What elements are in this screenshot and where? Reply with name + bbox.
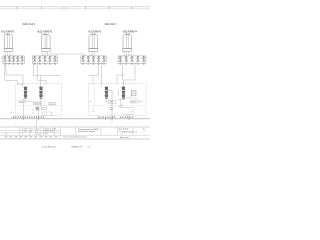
rail junction ticks — [24, 118, 129, 120]
contactor K2 pin marks — [38, 87, 43, 95]
pump M1 drop wires — [5, 51, 10, 56]
device 4b hatch — [131, 92, 136, 94]
svg-text:-X2: -X2 — [42, 54, 45, 56]
wire link under box 4b — [120, 97, 137, 99]
aux device box 2 — [41, 107, 46, 110]
terminal box X3 — [81, 56, 106, 63]
pump M3 drop wires — [90, 51, 95, 56]
terminal X3.4 — [97, 56, 100, 64]
svg-text:Gepr: Gepr — [30, 127, 34, 130]
frame column tick 3 — [63, 7, 65, 9]
wire relay K4 drop to rail — [118, 98, 129, 119]
pump M3 lead pair (neck) — [92, 33, 94, 34]
device tag box K3.1 — [108, 101, 116, 104]
svg-text:31: 31 — [131, 111, 133, 113]
frame column tick 4 — [85, 7, 87, 9]
terminal X3.1 — [82, 56, 85, 64]
enclosure 2 internal dashed divider — [89, 105, 147, 107]
enclosure 2 dashed sub-divider — [93, 84, 95, 106]
svg-text:-M102 PUMPE P2: -M102 PUMPE P2 — [37, 31, 53, 33]
float switch S4 — [120, 105, 122, 107]
float switch S3 on drop wire — [110, 107, 113, 110]
device tag box K2.1 — [49, 102, 56, 105]
wire link row 4 — [122, 108, 134, 115]
svg-text:-W101 4G2,5: -W101 4G2,5 — [22, 23, 35, 26]
svg-text:-X3: -X3 — [91, 54, 94, 56]
svg-text:#1: #1 — [88, 147, 91, 149]
contactor K4 — [122, 87, 125, 99]
contactor K2 — [40, 87, 43, 99]
svg-text:+S1: +S1 — [118, 131, 121, 133]
svg-text:A2: A2 — [141, 100, 143, 103]
contactor K4 pin marks — [121, 87, 126, 95]
wire box X2 to relay K2 (run A) — [34, 63, 62, 86]
wire drop into relay K4 — [117, 75, 125, 96]
terminal X1.5 — [21, 56, 24, 64]
terminal box X4 — [118, 56, 146, 63]
title block row line 1 — [0, 129, 61, 131]
svg-text:12: 12 — [32, 113, 34, 115]
frame column tick 6 — [131, 7, 133, 9]
svg-text:4,0 kW: 4,0 kW — [4, 33, 9, 35]
device tag box K1.1 — [19, 100, 25, 103]
svg-text:-K2.1: -K2.1 — [50, 103, 54, 105]
svg-text:Mu: Mu — [30, 131, 32, 133]
terminal X2.4 — [48, 56, 51, 64]
svg-text:12.05: 12.05 — [24, 131, 28, 133]
svg-text:13: 13 — [42, 114, 44, 116]
svg-text:4,0 kW: 4,0 kW — [91, 33, 96, 35]
terminal X2.2 — [38, 56, 41, 64]
svg-text:4,0 kW: 4,0 kW — [125, 33, 130, 35]
svg-text:Blatt 1 von 1: Blatt 1 von 1 — [120, 136, 129, 139]
title block outline — [0, 127, 150, 139]
terminal box X1 — [3, 56, 25, 63]
terminal box X2 — [33, 56, 58, 63]
pump M3 base — [89, 49, 98, 52]
pump M3 body — [89, 35, 97, 49]
wire stub below rail x36.6 — [36, 119, 38, 127]
contactor K1 — [24, 87, 27, 99]
pump M2 drop wires — [43, 51, 48, 56]
terminal X1.3 — [12, 56, 15, 64]
device tag box K4.1 — [131, 100, 140, 103]
pump M2 lead pair (neck) — [45, 33, 47, 34]
svg-text:21: 21 — [92, 108, 94, 110]
terminal X2.1 — [33, 56, 36, 64]
frame top inner line — [0, 8, 150, 10]
svg-text:-X1: -X1 — [11, 54, 14, 56]
device tag box mid group1 — [33, 102, 41, 105]
svg-text:-X4: -X4 — [129, 54, 132, 56]
terminal X1.4 — [16, 56, 19, 64]
svg-text:ST: ST — [36, 131, 38, 133]
wire box X3 to relay K3 (run A) — [89, 63, 99, 84]
contactor K3 pin marks — [104, 87, 109, 95]
svg-text:Bl.1: Bl.1 — [143, 129, 146, 131]
svg-text:Datum 12.05.2008 Name Bauer: Datum 12.05.2008 Name Bauer — [63, 135, 87, 138]
title block row line 3 (full) — [0, 134, 150, 136]
pump M2 body — [42, 35, 50, 49]
wire box X1 to relay K1 (run B) — [5, 63, 23, 84]
terminal X4.2 — [125, 56, 128, 64]
svg-text:-X10: -X10 — [10, 112, 13, 114]
svg-text:12.05.08 14:22: 12.05.08 14:22 — [42, 147, 57, 149]
svg-text:-M101 PUMPE P1: -M101 PUMPE P1 — [1, 31, 15, 33]
pump M1 base — [4, 49, 13, 52]
wire relay K3 to tag box — [106, 98, 108, 102]
title block bottom row ticks — [5, 135, 60, 139]
float switch S2 — [36, 107, 39, 110]
contactor K3 — [105, 87, 108, 99]
control cabinet enclosure group 1 (dashed) — [16, 84, 62, 116]
wire box X3 to relay K3 (run B) — [101, 63, 103, 86]
long wire to rail at x112 — [108, 90, 112, 119]
terminal X4.5 — [142, 56, 145, 64]
svg-text:v.1: v.1 — [143, 131, 145, 133]
pump M1 body — [4, 35, 12, 49]
link wire group1 to box X3 — [47, 54, 84, 56]
frame column tick 1 — [16, 7, 18, 9]
blob device 2 — [36, 107, 40, 111]
terminal X1.2 — [8, 56, 11, 64]
title block row line 2 — [0, 132, 61, 134]
wire relay K1 to terminal rail — [24, 98, 26, 119]
frame top outer line — [0, 6, 150, 8]
control cabinet enclosure group 2 (dashed) — [89, 84, 147, 116]
rail numbers right group — [98, 117, 133, 119]
pump M2 inner channel — [45, 35, 47, 49]
svg-text:A1: A1 — [90, 100, 92, 103]
pump M1 lead pair (neck) — [8, 33, 10, 34]
wire box X4 loop run — [122, 63, 135, 80]
terminal X3.5 — [102, 56, 105, 64]
terminal X3.3 — [92, 56, 95, 64]
contactor K1 pin marks — [23, 87, 28, 95]
terminal X4.1 — [119, 56, 122, 64]
terminal X1.1 — [4, 56, 7, 64]
pump M2 base — [42, 49, 51, 52]
frame column tick 5 — [108, 7, 110, 9]
pump M3 inner channel — [92, 35, 94, 49]
pump M4 base — [123, 49, 132, 52]
terminal X4.3 — [131, 56, 134, 64]
small device box 4b — [131, 90, 136, 96]
svg-text:=A1: =A1 — [118, 127, 121, 130]
svg-text:-K4.1: -K4.1 — [131, 101, 135, 103]
svg-text:-M202 PUMPE P4: -M202 PUMPE P4 — [122, 31, 137, 33]
terminal X2.3 — [43, 56, 46, 64]
svg-text:11: 11 — [32, 110, 34, 112]
wire relay K1 to tag box mid — [25, 100, 33, 103]
title block column dividers — [19, 127, 133, 135]
svg-text:-Q1.2: -Q1.2 — [34, 103, 40, 105]
svg-text:EPLAN 5.70: EPLAN 5.70 — [72, 146, 83, 149]
pump M4 inner channel — [126, 35, 128, 49]
pump M4 body — [123, 35, 131, 49]
svg-text:GKLW Pumpen 1-4: GKLW Pumpen 1-4 — [122, 132, 137, 134]
bottom row left cell dots — [5, 136, 57, 137]
svg-text:Anlage: Anlage — [123, 128, 128, 131]
svg-text:Bearb: Bearb — [24, 127, 28, 130]
terminal X3.2 — [87, 56, 90, 64]
enclosure 1 internal dashed divider — [16, 105, 62, 107]
wire box X2 to relay K2 (run B) — [38, 63, 46, 84]
svg-text:Stromlaufplan Pumpen: Stromlaufplan Pumpen — [78, 130, 95, 133]
wire link S2 row — [41, 112, 52, 116]
terminal X4.4 — [136, 56, 139, 64]
wire stub below rail x112 — [111, 119, 113, 122]
pump M4 drop wires — [124, 51, 129, 56]
wire relay K2 drop to rail — [38, 98, 40, 119]
pump M1 inner channel — [8, 35, 10, 49]
wire box X1 to relay K1 (run A) — [6, 63, 23, 86]
svg-text:a: a — [20, 128, 21, 130]
svg-text:Norm: Norm — [36, 127, 40, 130]
terminal X2.5 — [54, 56, 57, 64]
enclosure 1 dashed sub-divider — [44, 84, 46, 106]
rail numbers left group — [13, 117, 44, 119]
pump M4 lead pair (neck) — [126, 33, 128, 34]
svg-text:-K3.1: -K3.1 — [109, 102, 113, 104]
svg-text:Rev: Rev — [5, 134, 8, 136]
terminal rail — [0, 118, 150, 120]
svg-text:8: 8 — [15, 125, 16, 127]
svg-text:Bearb. Bauer: Bearb. Bauer — [44, 131, 54, 133]
svg-text:22: 22 — [92, 111, 94, 113]
svg-text:-M201 PUMPE P3: -M201 PUMPE P3 — [88, 31, 101, 33]
svg-text:-W201 4G2,5: -W201 4G2,5 — [104, 23, 116, 26]
frame column tick 2 — [41, 7, 43, 9]
